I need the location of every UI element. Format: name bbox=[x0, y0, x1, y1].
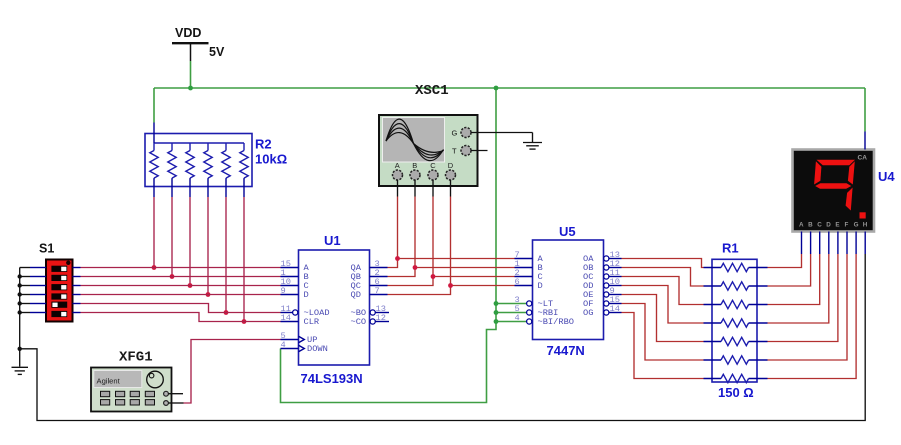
junction S1 common 303.5 bbox=[18, 301, 22, 305]
wire S1 common vertical bbox=[19, 268, 21, 367]
svg-text:G: G bbox=[854, 222, 859, 229]
wire ~LT stub bbox=[496, 303, 527, 305]
svg-text:U4: U4 bbox=[878, 169, 895, 184]
svg-text:6: 6 bbox=[515, 277, 520, 287]
wire net LOAD S1 to U1 bbox=[81, 304, 281, 313]
power VDD bbox=[172, 26, 225, 61]
junction scope C bbox=[431, 274, 436, 279]
wire R1 to U4 D bbox=[768, 254, 829, 323]
svg-text:10kΩ: 10kΩ bbox=[255, 152, 287, 167]
svg-text:D: D bbox=[448, 161, 454, 170]
wire S1 row 303.5 to common bbox=[20, 303, 30, 305]
wire R2 column to net LOAD bbox=[225, 197, 227, 313]
ground GND2 bbox=[523, 133, 542, 150]
svg-text:Agilent: Agilent bbox=[97, 377, 121, 386]
svg-text:OG: OG bbox=[583, 308, 593, 318]
wire S1 row 276.5 to common bbox=[20, 276, 30, 278]
svg-text:E: E bbox=[835, 222, 839, 229]
wire ~RBI stub bbox=[496, 312, 527, 314]
resistor R2 10kohm pack bbox=[145, 123, 287, 198]
svg-text:14: 14 bbox=[281, 313, 291, 323]
wire S1 row 285.5 to common bbox=[20, 285, 30, 287]
wire net CLR S1 to U1 bbox=[81, 313, 281, 322]
junction scope B bbox=[413, 265, 418, 270]
junction S1 common 312.5 bbox=[18, 310, 22, 314]
svg-text:S1: S1 bbox=[39, 242, 54, 256]
wire U5 OB to R1 bbox=[622, 268, 704, 287]
wire U5 OA to R1 bbox=[622, 259, 704, 268]
svg-text:C: C bbox=[430, 161, 436, 170]
junction ground tap bbox=[18, 347, 22, 351]
junction R2 A bbox=[152, 265, 157, 270]
wire U5 OF to R1 bbox=[622, 304, 704, 361]
junction VDD drop bbox=[494, 86, 499, 91]
wire R1 to U4 E bbox=[768, 254, 838, 342]
junction S1 common 294.5 bbox=[18, 292, 22, 296]
op-amp U1 74LS193N counter bbox=[281, 233, 390, 386]
junction ~LT bbox=[494, 301, 499, 306]
svg-text:~CO: ~CO bbox=[351, 317, 367, 327]
svg-text:R1: R1 bbox=[722, 241, 739, 256]
svg-text:B: B bbox=[412, 161, 417, 170]
junction R2 B bbox=[170, 274, 175, 279]
junction S1 common 276.5 bbox=[18, 274, 22, 278]
wire R2 column to net CLR bbox=[243, 197, 245, 322]
wire R2 column to net C bbox=[189, 197, 191, 286]
svg-text:D: D bbox=[304, 290, 309, 300]
junction R2 D bbox=[206, 292, 211, 297]
svg-text:5V: 5V bbox=[209, 45, 225, 59]
svg-text:T: T bbox=[452, 147, 457, 156]
junction scope A bbox=[395, 256, 400, 261]
junction ~BI/RBO bbox=[494, 319, 499, 324]
wire U5 OC to R1 bbox=[622, 277, 704, 305]
wire scope B / U1 QB / U5 B bbox=[388, 197, 416, 277]
wire R2 column to net B bbox=[171, 197, 173, 277]
junction S1 common 285.5 bbox=[18, 283, 22, 287]
svg-text:CLR: CLR bbox=[304, 317, 320, 327]
wire scope C / U1 QC / U5 C bbox=[388, 197, 434, 286]
svg-text:B: B bbox=[808, 222, 813, 229]
wire R2 column to net A bbox=[153, 197, 155, 268]
svg-text:A: A bbox=[799, 222, 804, 229]
oscilloscope XSC1 bbox=[379, 83, 533, 197]
wire ~BI/RBO stub bbox=[496, 321, 527, 323]
wire ground bottom bus to U4 H bbox=[20, 254, 866, 421]
svg-text:A: A bbox=[395, 161, 400, 170]
wire net B S1 to U1 bbox=[81, 276, 281, 278]
wire S1 row 312.5 to common bbox=[20, 312, 30, 314]
svg-text:150 Ω: 150 Ω bbox=[718, 385, 754, 400]
junction ~RBI bbox=[494, 310, 499, 315]
svg-text:7: 7 bbox=[375, 286, 380, 296]
svg-text:74LS193N: 74LS193N bbox=[301, 371, 363, 386]
svg-text:DOWN: DOWN bbox=[307, 344, 328, 354]
svg-text:R2: R2 bbox=[255, 137, 272, 152]
svg-text:G: G bbox=[452, 129, 458, 138]
svg-text:XFG1: XFG1 bbox=[119, 350, 153, 366]
svg-text:D: D bbox=[538, 281, 543, 291]
svg-text:H: H bbox=[863, 222, 868, 229]
wire net A S1 to U1 bbox=[81, 267, 281, 269]
wire R2 column to net D bbox=[207, 197, 209, 295]
svg-text:14: 14 bbox=[610, 304, 620, 314]
wire VDD stem bbox=[190, 61, 192, 88]
switch S1 DIP-6 bbox=[30, 242, 81, 322]
wire R1 to U4 F bbox=[768, 254, 848, 360]
wire VDD drop to U5 enables and U1 DOWN bbox=[281, 88, 497, 403]
svg-text:7447N: 7447N bbox=[547, 343, 585, 358]
wire R1 to U4 A bbox=[768, 254, 802, 268]
svg-text:4: 4 bbox=[281, 340, 286, 350]
wire U5 OD to R1 bbox=[622, 286, 704, 324]
svg-text:QD: QD bbox=[351, 290, 361, 300]
svg-text:CA: CA bbox=[858, 155, 868, 162]
svg-text:U5: U5 bbox=[559, 224, 576, 239]
ground GND1 bbox=[12, 367, 29, 374]
wire R1 to U4 C bbox=[768, 254, 820, 305]
svg-text:12: 12 bbox=[376, 313, 386, 323]
svg-text:XSC1: XSC1 bbox=[415, 83, 449, 99]
junction scope D bbox=[448, 283, 453, 288]
svg-text:9: 9 bbox=[281, 286, 286, 296]
svg-text:U1: U1 bbox=[324, 233, 341, 248]
svg-text:4: 4 bbox=[515, 313, 520, 323]
display U4 seven-segment bbox=[793, 132, 896, 255]
wire net C S1 to U1 bbox=[81, 285, 281, 287]
wire XFG1 to U1 UP bbox=[184, 340, 281, 404]
svg-text:C: C bbox=[817, 222, 822, 229]
svg-text:F: F bbox=[845, 222, 849, 229]
wire VDD top bus bbox=[154, 87, 865, 89]
svg-text:D: D bbox=[826, 222, 831, 229]
wire U5 OG to R1 bbox=[622, 313, 704, 379]
junction R2 C bbox=[188, 283, 193, 288]
wire S1 row 294.5 to common bbox=[20, 294, 30, 296]
wire R1 to U4 B bbox=[768, 254, 811, 286]
junction R2 CLR bbox=[242, 319, 247, 324]
function generator XFG1 bbox=[91, 350, 184, 412]
wire scope A / U1 QA / U5 A bbox=[388, 197, 398, 268]
wire U5 OE to R1 bbox=[622, 295, 704, 342]
wire VDD to R2 bbox=[153, 88, 155, 123]
junction R2 LOAD bbox=[224, 310, 229, 315]
svg-text:VDD: VDD bbox=[175, 26, 201, 40]
wire scope D / U1 QD / U5 D bbox=[388, 197, 451, 295]
wire net D S1 to U1 bbox=[81, 294, 281, 296]
wire VDD to U4 CA bbox=[864, 88, 866, 132]
svg-text:~BI/RBO: ~BI/RBO bbox=[538, 317, 575, 327]
junction VDD stem bbox=[188, 86, 193, 91]
wire R1 to U4 G bbox=[768, 254, 857, 379]
resistor R1 150ohm pack bbox=[704, 241, 768, 401]
wire S1 row 267.5 to common bbox=[20, 267, 30, 269]
op-amp U5 7447N decoder bbox=[515, 224, 622, 358]
